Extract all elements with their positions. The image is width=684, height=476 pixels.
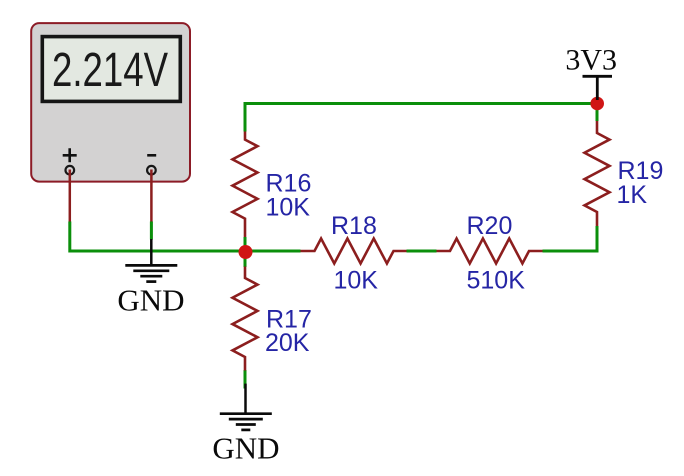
svg-text:10K: 10K xyxy=(334,266,379,294)
ground symbol GND2 xyxy=(220,384,272,430)
svg-text:510K: 510K xyxy=(467,266,526,294)
voltmeter pin + xyxy=(69,170,72,223)
voltmeter minus marking xyxy=(147,154,156,157)
resistor R16 xyxy=(233,132,258,238)
svg-text:20K: 20K xyxy=(265,329,310,357)
resistor R20 xyxy=(437,239,543,264)
power flag 3V3 bar xyxy=(583,76,613,100)
wire from + terminal to bottom bus xyxy=(70,222,301,252)
svg-text:1K: 1K xyxy=(617,181,648,209)
svg-text:2.214V: 2.214V xyxy=(52,44,168,97)
wire between R18 and R20 xyxy=(407,250,437,253)
resistor R17 xyxy=(233,267,258,371)
wire top bus from R16 to 3V3 node xyxy=(245,104,597,132)
svg-text:10K: 10K xyxy=(266,194,311,222)
wire junction to R17 top xyxy=(244,252,247,267)
junction node at 3V3 xyxy=(590,97,604,111)
wire R20 right to R19 bottom xyxy=(543,226,598,251)
wire 3V3 node to R19 top xyxy=(596,104,599,122)
voltmeter + terminal xyxy=(66,166,75,175)
voltmeter pin - xyxy=(150,170,153,223)
ground symbol GND1 xyxy=(125,239,177,282)
svg-text:GND: GND xyxy=(117,283,184,318)
resistor R18 xyxy=(301,239,407,264)
voltmeter display xyxy=(42,37,180,102)
voltmeter plus marking xyxy=(63,148,77,162)
svg-text:GND: GND xyxy=(212,431,279,466)
junction node at R16/R17 xyxy=(239,245,253,259)
wire R17 bottom to GND xyxy=(244,370,247,389)
svg-text:R20: R20 xyxy=(467,212,513,240)
svg-text:3V3: 3V3 xyxy=(565,44,617,77)
voltmeter - terminal xyxy=(147,166,156,175)
wire R16 bottom to junction xyxy=(244,237,247,252)
voltmeter M1 body xyxy=(31,23,190,182)
resistor R19 xyxy=(585,121,610,226)
svg-text:R18: R18 xyxy=(331,212,377,240)
wire from - terminal to GND xyxy=(150,222,153,240)
